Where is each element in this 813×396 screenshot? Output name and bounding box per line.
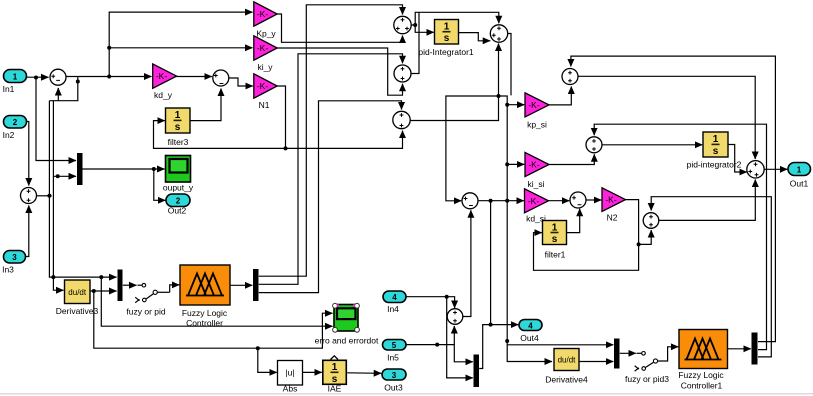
svg-text:ki_si: ki_si	[527, 179, 544, 189]
wire In4 to S9 top	[407, 297, 455, 308]
wire S2 out down to Mux2 top	[37, 195, 52, 197]
scope erro and errordot (selected)	[315, 303, 379, 345]
wire derivative long line to scope top input	[94, 291, 333, 348]
svg-text:1: 1	[332, 362, 338, 373]
wire into S1 bottom	[57, 88, 59, 101]
svg-text:Out4: Out4	[520, 333, 539, 343]
svg-text:1: 1	[713, 134, 719, 145]
wire In1 branch down to Mux1 top	[36, 77, 76, 160]
junction at (507.2,344.8)	[505, 339, 509, 343]
wire branch down to Out2	[154, 169, 166, 200]
svg-text:In5: In5	[387, 353, 399, 363]
demux M3	[253, 269, 259, 301]
svg-text:ouput_y: ouput_y	[163, 183, 194, 193]
svg-text:Abs: Abs	[283, 384, 298, 394]
wire Mux3 out2 up to S5 top	[259, 54, 403, 284]
svg-text:erro and errordot: erro and errordot	[315, 336, 379, 346]
junction at (153.8,169)	[152, 167, 156, 171]
wire FLC1 out to Mux5	[728, 348, 751, 350]
junction at (507.2,200.7)	[505, 199, 509, 203]
wire N1 feedback to filter3 input	[154, 86, 286, 148]
wire S1 out to kd_y	[66, 76, 152, 78]
svg-text:Out3: Out3	[384, 383, 403, 393]
wire S5 out rises	[411, 13, 419, 74]
svg-text:s: s	[552, 234, 558, 245]
gain ki_si	[525, 152, 549, 189]
wire kd_si out to S10	[549, 200, 570, 202]
wire In2 down to S2 top	[27, 122, 29, 186]
input port In2	[3, 116, 27, 141]
wire S13 out to Out1	[764, 168, 787, 170]
svg-text:2: 2	[176, 197, 181, 206]
wire feedback spine to Mux2 top line	[49, 101, 116, 277]
wire switch1 out to Fuzzy Logic Controller	[170, 285, 180, 292]
input port In5	[383, 340, 407, 363]
wire S7 out down	[508, 34, 511, 96]
sum S3	[213, 70, 229, 86]
gain N1	[254, 74, 277, 110]
svg-text:1: 1	[444, 22, 450, 33]
svg-text:5: 5	[392, 341, 397, 350]
svg-text:-K-: -K-	[257, 81, 269, 91]
junction at (77.8,81.5)	[76, 80, 80, 84]
wire In3 up to S2 bottom	[26, 206, 29, 257]
svg-text:Derivative4: Derivative4	[545, 375, 588, 385]
svg-text:kd_y: kd_y	[154, 90, 173, 100]
wire branch to Mux1 bottom	[53, 175, 76, 177]
wire In4 branch down to Mux6 bottom	[447, 297, 473, 378]
wire Mux6 out up to Out4	[479, 325, 518, 369]
gain Kp_y	[254, 2, 277, 39]
sum S13	[747, 161, 764, 178]
scope ouput_y	[163, 156, 194, 193]
svg-text:1: 1	[13, 73, 18, 82]
wire pid-integrator2 out to S13	[728, 145, 747, 173]
Abs block	[278, 361, 303, 394]
svg-text:-K-: -K-	[257, 43, 269, 53]
svg-text:-K-: -K-	[156, 71, 168, 81]
wire S1 out branch down	[49, 77, 77, 101]
sum S6	[393, 111, 410, 128]
wire si branch left down to S8 left input	[446, 96, 499, 201]
wire S8 out to kd_si	[478, 200, 524, 202]
wire feedback spine2 to Derivative3	[53, 101, 63, 291]
junction at (437.2,344.6)	[435, 343, 439, 347]
svg-text:-K-: -K-	[528, 196, 540, 206]
wire N1 feedback branch up to S6 bottom	[286, 131, 403, 149]
svg-text:N2: N2	[607, 213, 618, 223]
svg-text:s: s	[713, 146, 719, 157]
wire Mux1 out to scope ouput_y	[83, 168, 165, 170]
wire In5 branch down to Mux6 top	[454, 345, 473, 362]
junction at (93.8,291)	[92, 289, 96, 293]
wire ki_y out to S5 bottom	[277, 48, 402, 95]
svg-text:fuzy or pid3: fuzy or pid3	[625, 374, 669, 384]
svg-text:-K-: -K-	[257, 9, 269, 19]
svg-text:fuzy or pid: fuzy or pid	[126, 307, 165, 317]
demux M5	[752, 333, 758, 365]
svg-text:Controller1: Controller1	[681, 381, 723, 391]
wire to kp_si	[507, 104, 524, 106]
svg-text:1: 1	[797, 166, 802, 175]
wire In1 to S1	[27, 76, 49, 78]
wire filter3 out up to S3 bottom	[190, 89, 221, 121]
wire to Mux4 top	[507, 344, 613, 346]
integrator filter1	[543, 221, 567, 260]
junction at (285.5,148.4)	[284, 146, 288, 150]
gain ki_y	[254, 36, 277, 72]
output port Out3	[382, 369, 406, 393]
wire Derivative4 out to Mux4 bottom	[579, 361, 613, 363]
wire S4 out to pid-Integrator1	[415, 25, 434, 32]
sum S5	[394, 65, 411, 82]
sum S7	[490, 25, 507, 42]
sum S1	[50, 69, 66, 85]
sum S2	[21, 188, 37, 204]
svg-text:s: s	[175, 122, 181, 133]
wire S4 out up to S7 top	[411, 12, 499, 25]
wire pid-Integrator1 out to S7	[459, 33, 490, 41]
sum S12	[586, 137, 602, 153]
svg-text:-K-: -K-	[605, 195, 617, 205]
wire S6 out up to S7 bottom	[410, 44, 498, 121]
svg-text:Out1: Out1	[790, 179, 809, 189]
junction at (638.6,244.4)	[637, 242, 641, 246]
wire Abs out to IAE	[303, 371, 322, 373]
svg-text:In1: In1	[3, 84, 15, 94]
svg-text:Derivative3: Derivative3	[56, 306, 99, 316]
wire Mux5 out1 feedback to S11 top	[571, 56, 776, 342]
wire branch up to S14 bottom	[639, 230, 652, 244]
junction at (446.7,296.7)	[445, 295, 449, 299]
derivative Derivative3	[56, 280, 99, 316]
svg-text:filter1: filter1	[545, 250, 566, 260]
svg-text:3: 3	[392, 371, 397, 380]
switch fuzy or pid3	[625, 352, 669, 385]
svg-text:pid-Integrator1: pid-Integrator1	[418, 47, 474, 57]
mux M6	[474, 355, 480, 388]
wire errordot line down to Abs	[258, 348, 277, 372]
svg-text:-K-: -K-	[528, 100, 540, 110]
wire Mux4 out to switch2	[620, 352, 636, 354]
wire In5 to S9 bottom	[406, 326, 454, 345]
sum S11	[562, 69, 578, 85]
wire to ki_si	[507, 163, 524, 165]
wire IAE out to Out3	[347, 372, 381, 375]
svg-text:du/dt: du/dt	[68, 288, 87, 297]
derivative Derivative4	[545, 349, 588, 385]
svg-text:N1: N1	[259, 100, 270, 110]
mux M2	[118, 270, 123, 302]
junction at (490.6,200.7)	[489, 199, 493, 203]
wire kd_y out to S3	[177, 76, 212, 78]
wire Kp_y out to S4 bottom	[277, 14, 402, 42]
svg-text:-K-: -K-	[528, 160, 540, 170]
wire S9 out up to S8 bottom	[463, 210, 471, 316]
svg-text:|u|: |u|	[285, 368, 294, 378]
Fuzzy Logic Controller	[180, 265, 230, 328]
integrator filter3	[166, 108, 191, 147]
svg-text:2: 2	[13, 118, 18, 127]
wire Mux5 out2 feedback to S12 top	[594, 124, 766, 349]
svg-text:Kp_y: Kp_y	[256, 29, 276, 39]
sum S14	[643, 213, 659, 229]
output port Out1	[788, 163, 811, 189]
svg-text:4: 4	[392, 293, 397, 302]
junction at (490.6,324.6)	[489, 323, 493, 327]
gain kd_y	[153, 64, 177, 100]
integrator IAE	[323, 356, 347, 394]
svg-text:1: 1	[175, 110, 181, 121]
sum S8	[462, 193, 478, 209]
svg-text:ki_y: ki_y	[257, 62, 273, 72]
wire Mux2 out to switch1	[123, 284, 137, 286]
junction at (498.5,96)	[497, 94, 501, 98]
svg-text:Controller: Controller	[186, 318, 223, 328]
wire S3 out to N1	[229, 78, 253, 86]
svg-text:filter3: filter3	[168, 137, 189, 147]
svg-text:Fuzzy Logic: Fuzzy Logic	[678, 370, 724, 380]
sum S4	[394, 16, 411, 33]
junction at (415.2,25)	[413, 23, 417, 27]
svg-text:du/dt: du/dt	[558, 356, 577, 365]
wire filter1 out up to S10 bottom	[567, 209, 580, 233]
gain N2	[602, 188, 626, 223]
junction at (36,77.5)	[34, 76, 38, 80]
output port Out4	[519, 320, 542, 344]
Fuzzy Logic Controller1	[678, 330, 727, 391]
wire S12 out to pid-integrator2	[602, 144, 702, 146]
mux M4	[614, 339, 620, 369]
wire si error branch right down to Derivative4	[499, 96, 553, 362]
wire S8 out branch down to Out4 line	[490, 201, 492, 325]
svg-text:3: 3	[12, 253, 17, 262]
wire kp_si out up to S11 bottom	[549, 87, 571, 105]
svg-text:IAE: IAE	[328, 384, 342, 394]
wire Mux3 out3 up to S6 top	[259, 101, 402, 293]
svg-text:In4: In4	[387, 304, 399, 314]
svg-text:pid-integrator2: pid-integrator2	[687, 160, 742, 170]
wire Mux3 out1 up to S4 top	[259, 5, 403, 276]
gain kd_si	[525, 189, 549, 224]
sum S9	[447, 309, 463, 325]
wire S14 out up to S13 bottom	[659, 180, 755, 221]
svg-text:s: s	[444, 33, 450, 44]
svg-text:1: 1	[552, 222, 558, 233]
wire Derivative3 out to Mux2 bottom	[91, 290, 117, 292]
gain kp_si	[525, 93, 549, 130]
sum S10	[570, 192, 586, 208]
junction at (507.2,104.7)	[505, 103, 509, 107]
mux M1	[77, 153, 83, 185]
wire S10 out to N2	[586, 199, 601, 201]
switch fuzy or pid	[126, 283, 169, 316]
input port In3	[2, 251, 25, 275]
junction at (49.4,195.8)	[47, 194, 51, 198]
integrator pid-Integrator1	[418, 20, 474, 58]
wire error to ki_y	[109, 47, 252, 49]
bottom window separator	[0, 393, 813, 395]
svg-text:In2: In2	[3, 130, 15, 140]
svg-text:4: 4	[528, 321, 533, 330]
wire branch down to scope bottom input	[101, 277, 332, 326]
junction at (109.2,76.5)	[107, 75, 111, 79]
input port In1	[3, 70, 27, 95]
svg-text:In3: In3	[2, 265, 14, 275]
junction at (53.4,277.1)	[51, 275, 55, 279]
wire switch2 out to Fuzzy Logic Controller1	[658, 347, 679, 361]
wire ki_si out up to S12 bottom	[549, 154, 594, 164]
wire Mux5 out3 feedback to S14 top	[651, 197, 771, 357]
output port Out2	[166, 194, 190, 216]
wire FLC out to Mux3	[230, 284, 252, 286]
wire error up to Kp_y	[109, 12, 252, 76]
wire S11 out down to S13 top	[578, 76, 755, 159]
wire N2 feedback to filter1 input	[534, 200, 639, 271]
junction at (257.8,348.2)	[256, 346, 260, 350]
svg-text:kp_si: kp_si	[527, 120, 547, 130]
junction at (57.7,176.3)	[56, 174, 60, 178]
junction at (101.3,277.1)	[99, 275, 103, 279]
input port In4	[383, 291, 406, 314]
integrator pid-integrator2	[687, 132, 742, 170]
svg-text:Out2: Out2	[168, 206, 187, 216]
svg-text:Fuzzy Logic: Fuzzy Logic	[182, 308, 228, 318]
junction at (507.2,164.4)	[505, 162, 509, 166]
junction at (109.2,47.8)	[107, 46, 111, 50]
